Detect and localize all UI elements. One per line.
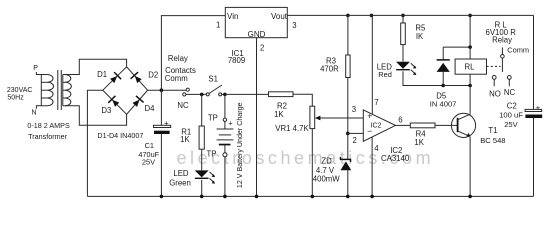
wire bridge negative to ground rail	[87, 90, 102, 196]
wire IC1 pin1	[161, 16, 225, 91]
node battery ground	[223, 195, 227, 199]
label IC2 below	[390, 146, 402, 155]
resistor R1	[199, 126, 204, 149]
wire R1 to LED	[201, 149, 203, 170]
label BC 548	[480, 136, 505, 145]
svg-text:+: +	[228, 119, 233, 128]
label R3	[326, 57, 336, 66]
node RL top	[468, 14, 472, 18]
label Relay	[168, 54, 188, 63]
label pin 3 ic2	[352, 105, 356, 114]
svg-text:25V: 25V	[142, 158, 155, 167]
svg-text:P: P	[33, 65, 38, 72]
wire R2 to VR1	[293, 94, 312, 106]
wire collector node horizontal	[443, 85, 470, 87]
svg-text:Comm: Comm	[165, 74, 188, 83]
switch S1 blade	[209, 85, 222, 94]
label IC1	[231, 49, 243, 58]
wire IC2 pin2	[348, 132, 364, 134]
node C1 ground	[160, 195, 164, 199]
label 100uF	[499, 110, 523, 119]
zener ZD symbol	[340, 157, 351, 170]
svg-text:NC: NC	[177, 101, 189, 110]
svg-text:Relay: Relay	[168, 54, 188, 63]
wire battery bottom to rail	[224, 157, 226, 197]
label R2	[277, 101, 287, 110]
wire LED red down	[403, 71, 443, 85]
label pin 2	[260, 44, 264, 53]
potentiometer VR1 wiper	[315, 116, 363, 121]
label Vout	[271, 12, 288, 21]
label R1 1K	[180, 135, 190, 144]
node collector junction	[468, 84, 472, 88]
switch S1 throw	[219, 93, 222, 96]
svg-text:Vin: Vin	[227, 12, 238, 21]
svg-text:R2: R2	[277, 101, 287, 110]
label 7809	[228, 56, 245, 65]
label D2	[148, 70, 158, 79]
resistor R5	[401, 23, 406, 45]
svg-text:1K: 1K	[180, 135, 190, 144]
potentiometer VR1 body	[310, 106, 315, 128]
label T1	[488, 126, 497, 135]
svg-text:4.7 V: 4.7 V	[316, 166, 335, 175]
wire IC1 pin2 ground	[256, 38, 258, 197]
node ZD junction	[346, 132, 350, 136]
led LED red symbol	[396, 62, 410, 70]
wire D5 top tee	[443, 46, 470, 48]
wire battery top	[224, 94, 226, 118]
resistor R4	[410, 123, 435, 128]
label C1 plus	[164, 119, 169, 128]
battery cell plates	[217, 129, 234, 145]
capacitor C1	[154, 125, 171, 134]
svg-text:BC 548: BC 548	[480, 136, 505, 145]
svg-text:D1-D4 IN4007: D1-D4 IN4007	[97, 131, 143, 140]
node bridge output junction	[160, 88, 164, 92]
label RL title	[495, 21, 508, 30]
label D3	[101, 106, 111, 115]
wire C1 bottom	[160, 134, 162, 196]
regulator IC1 box	[225, 7, 287, 37]
watermark	[177, 148, 435, 168]
label Vin	[227, 12, 238, 21]
svg-text:D3: D3	[101, 106, 111, 115]
label S1	[208, 74, 218, 83]
svg-text:+: +	[367, 111, 372, 121]
diode D5 symbol	[437, 60, 450, 72]
svg-text:50Hz: 50Hz	[7, 94, 24, 101]
label NO	[489, 89, 501, 98]
relay actuator dashes	[487, 65, 501, 67]
wire R1 top	[201, 94, 203, 126]
label VR1 4.7K	[275, 124, 309, 133]
svg-text:100 uF: 100 uF	[499, 110, 523, 119]
svg-text:C2: C2	[507, 101, 517, 110]
label R4 1K	[414, 138, 424, 147]
label CA3140	[381, 154, 410, 163]
terminal N label	[32, 110, 37, 117]
label Contacts	[165, 66, 196, 75]
svg-text:NO: NO	[489, 89, 501, 98]
wire P stub	[36, 72, 47, 75]
node D5 top	[468, 45, 472, 49]
wire contact B to S1	[186, 93, 206, 95]
svg-text:4: 4	[374, 144, 379, 153]
svg-text:470R: 470R	[320, 65, 339, 74]
label Transformer	[28, 132, 67, 141]
transistor T1 emitter	[458, 131, 471, 137]
wire N stub	[36, 106, 47, 109]
wire ZD bottom	[347, 170, 349, 196]
svg-text:IN 4007: IN 4007	[430, 100, 457, 109]
svg-text:7809: 7809	[228, 56, 245, 65]
label RL box	[465, 62, 476, 71]
label R5	[415, 24, 426, 33]
label 0-18 2 AMPS	[27, 121, 70, 130]
wire R3 to junction	[347, 78, 349, 134]
svg-text:IK: IK	[416, 32, 424, 41]
label NC left	[177, 101, 189, 110]
diode D1	[110, 72, 121, 83]
label Relay right	[492, 35, 512, 44]
wire ZD top	[347, 133, 349, 158]
svg-text:NC: NC	[504, 88, 516, 97]
diode D2	[131, 72, 142, 83]
wire D5 upper	[442, 47, 444, 59]
label TP lower	[207, 149, 217, 158]
node IC2 pin7 top	[370, 14, 374, 18]
node battery junction	[223, 93, 227, 97]
test point TP upper circle	[223, 118, 226, 121]
wire secondary bottom to bridge	[63, 106, 127, 125]
node R5 top	[401, 14, 405, 18]
transformer core	[58, 70, 62, 110]
node R3 top	[346, 14, 350, 18]
svg-text:LED: LED	[173, 169, 189, 178]
label pin 6	[398, 115, 402, 124]
resistor R2	[269, 92, 294, 97]
node ZD ground	[346, 195, 350, 199]
wire R5 top	[402, 15, 404, 23]
capacitor C2	[525, 109, 542, 118]
wire S1 to battery node	[222, 93, 225, 95]
label NC right	[504, 88, 516, 97]
svg-text:Green: Green	[169, 178, 191, 187]
label IN 4007	[430, 100, 457, 109]
transistor T1 collector	[458, 113, 471, 120]
label C2 plus	[536, 103, 541, 112]
svg-text:2: 2	[353, 136, 357, 145]
svg-text:12 V Battery Under Charge: 12 V Battery Under Charge	[236, 102, 244, 188]
label 230VAC	[7, 87, 33, 94]
led red arrows	[411, 63, 417, 75]
svg-text:Red: Red	[378, 70, 392, 79]
svg-text:25V: 25V	[504, 120, 518, 129]
label 50Hz	[7, 94, 24, 101]
wire VR1 bottom	[311, 129, 313, 197]
svg-text:Vout: Vout	[271, 12, 288, 21]
svg-text:TP: TP	[208, 113, 218, 122]
label C2	[507, 101, 517, 110]
wire secondary top to bridge	[63, 59, 127, 74]
label ZD	[321, 157, 332, 166]
label IC2 plus input	[367, 111, 372, 121]
svg-text:Relay: Relay	[492, 35, 512, 44]
svg-text:C1: C1	[145, 141, 154, 150]
wire bridge positive output	[148, 89, 187, 91]
ground rail	[87, 195, 533, 197]
led LED green symbol	[195, 170, 209, 178]
label 6V100R	[486, 28, 517, 37]
wire IC2 output	[396, 124, 411, 126]
label LED green	[173, 169, 189, 178]
label Comm right	[507, 46, 529, 55]
relay comm circle	[501, 55, 505, 59]
label 25V	[142, 158, 155, 167]
svg-text:CA3140: CA3140	[381, 154, 410, 163]
svg-text:VR1 4.7K: VR1 4.7K	[275, 124, 309, 133]
node VR1 ground	[311, 195, 315, 199]
label R4	[416, 130, 427, 139]
svg-text:+: +	[536, 103, 541, 112]
top rail	[287, 14, 533, 16]
wire TP to battery	[224, 122, 226, 130]
svg-text:D1: D1	[97, 70, 107, 79]
label R5 1K	[416, 32, 424, 41]
wire T1 emitter to rail	[469, 137, 471, 197]
wire IC2 pin7	[371, 15, 373, 114]
label ZD 400mW	[313, 175, 341, 184]
relay NC circle	[507, 76, 511, 87]
svg-text:2: 2	[260, 44, 264, 53]
node R1 junction	[200, 93, 204, 97]
node D5 bottom junction	[441, 84, 445, 88]
node IC2 pin4 ground	[370, 195, 374, 199]
svg-text:1K: 1K	[274, 110, 284, 119]
label R1	[181, 127, 191, 136]
label 470R	[320, 65, 339, 74]
wire C1 top	[160, 90, 162, 125]
wire relay coil bottom	[469, 74, 471, 113]
label D4	[145, 104, 156, 113]
diode D3	[108, 96, 119, 107]
transistor T1 base bar	[457, 118, 459, 132]
svg-text:400mW: 400mW	[313, 175, 341, 184]
op-amp IC2 triangle	[363, 110, 395, 141]
label Green	[169, 178, 191, 187]
wire R4 to T1 base	[435, 124, 458, 126]
wire LED green to rail	[201, 180, 203, 197]
svg-text:Transformer: Transformer	[28, 132, 67, 141]
relay RL coil box	[455, 59, 486, 74]
transformer secondary winding	[63, 75, 72, 106]
label C2 25V	[504, 120, 518, 129]
label pin 7	[374, 98, 378, 107]
node LED green ground	[200, 195, 204, 199]
wire R3 top	[347, 15, 349, 55]
label 470uF	[138, 150, 159, 159]
relay blade	[501, 58, 503, 72]
svg-text:3: 3	[292, 21, 296, 30]
label ZD 4.7V	[316, 166, 335, 175]
svg-text:6: 6	[398, 115, 402, 124]
test point TP lower circle	[223, 153, 227, 157]
label pin 1	[216, 20, 220, 29]
relay comm stub	[501, 48, 503, 55]
svg-text:N: N	[32, 110, 37, 117]
label Comm left	[165, 74, 188, 83]
wire battery to TP lower	[224, 145, 226, 152]
wire battery node to R2	[225, 93, 269, 95]
node IC1 ground	[255, 195, 259, 199]
svg-text:7: 7	[374, 98, 378, 107]
transformer primary winding	[41, 75, 53, 106]
svg-text:Comm: Comm	[507, 46, 529, 55]
svg-text:S1: S1	[208, 74, 218, 83]
wire relay coil top	[469, 15, 471, 59]
label D1-D4 IN4007	[97, 131, 143, 140]
relay NO circle	[492, 76, 496, 87]
svg-text:1: 1	[216, 20, 220, 29]
wire C2 top	[533, 15, 535, 109]
svg-text:0-18 2 AMPS: 0-18 2 AMPS	[27, 121, 70, 130]
svg-text:3: 3	[352, 105, 356, 114]
led green arrows	[210, 172, 216, 184]
bridge diamond wires	[103, 67, 148, 115]
label pin 2 ic2	[353, 136, 357, 145]
label D1	[97, 70, 107, 79]
relay contact terminal B	[183, 93, 186, 96]
label pin 3	[292, 21, 296, 30]
resistor R3	[346, 55, 350, 78]
terminal P label	[33, 65, 38, 72]
label LED red	[377, 63, 393, 72]
label Red	[378, 70, 392, 79]
svg-text:ZD: ZD	[321, 157, 332, 166]
diode D4	[133, 96, 144, 107]
label C1	[145, 141, 154, 150]
svg-text:TP: TP	[207, 149, 217, 158]
svg-text:D2: D2	[148, 70, 158, 79]
wire IC2 pin4	[371, 137, 373, 196]
svg-text:230VAC: 230VAC	[7, 87, 33, 94]
label TP upper	[208, 113, 218, 122]
switch S1 pole	[206, 93, 209, 96]
relay contact terminal A	[186, 88, 189, 91]
svg-text:RL: RL	[465, 62, 476, 71]
label R2 1K	[274, 110, 284, 119]
svg-text:D4: D4	[145, 104, 156, 113]
svg-text:IC2: IC2	[371, 123, 382, 130]
wire R5 to LED red	[402, 45, 404, 62]
node T1 emitter ground	[468, 195, 472, 199]
label pin 4	[374, 144, 379, 153]
label IC2 inside	[371, 123, 382, 130]
svg-text:+: +	[164, 119, 169, 128]
svg-text:T1: T1	[488, 126, 497, 135]
label 12V battery under charge	[236, 102, 244, 188]
wire C2 bottom	[533, 118, 535, 196]
label GND	[248, 30, 266, 39]
svg-text:GND: GND	[248, 30, 266, 39]
svg-text:1K: 1K	[414, 138, 424, 147]
label battery plus	[228, 119, 233, 128]
wire D5 lower	[442, 72, 444, 86]
label D5	[436, 92, 447, 101]
transistor T1 circle	[451, 113, 475, 137]
label IC2 minus input	[367, 126, 372, 136]
